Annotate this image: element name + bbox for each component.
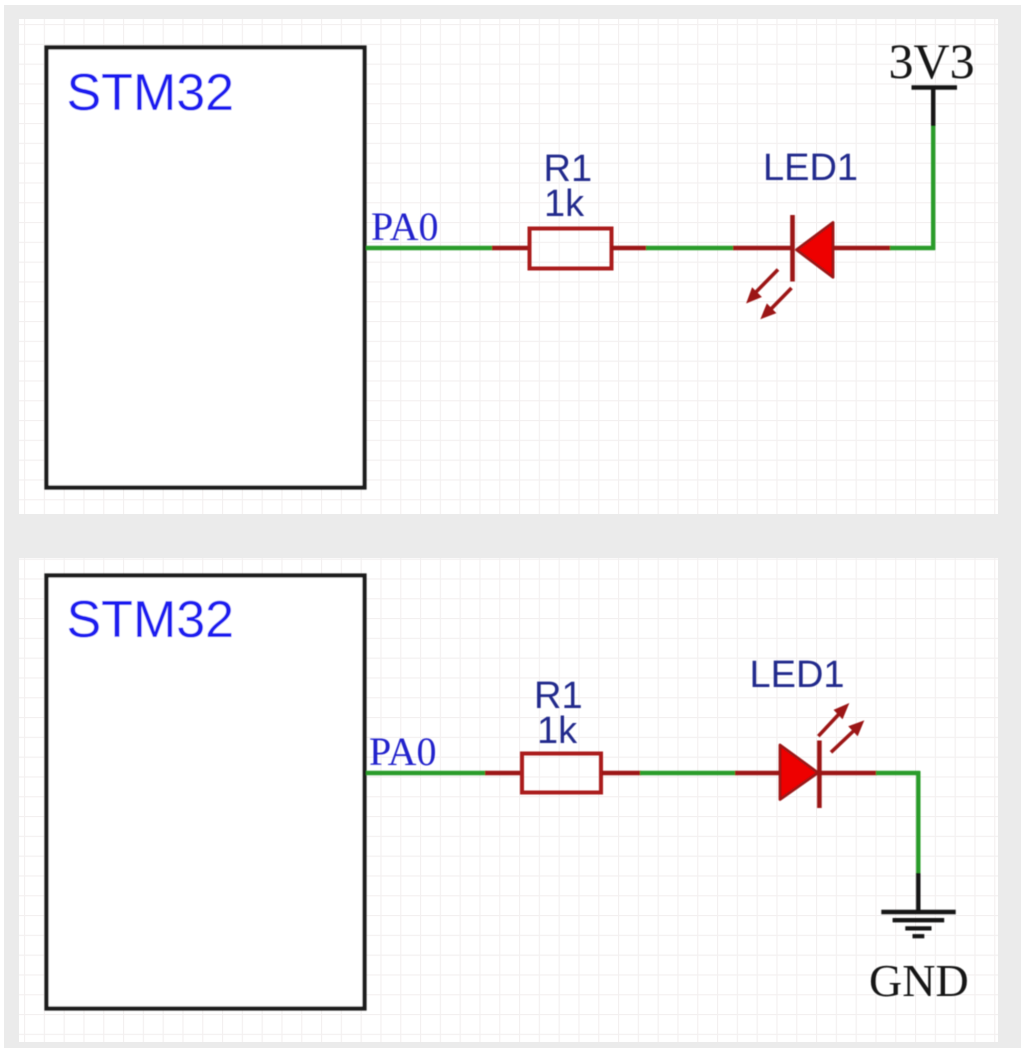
ground symbol bar 4 <box>913 934 925 938</box>
svg-text:PA0: PA0 <box>369 729 436 774</box>
pin stub left of R1 (dark red, top) <box>492 246 528 250</box>
wire 3V3 rail vertical (green, top) <box>931 125 935 250</box>
wire LED1 to GND horizontal (green, bottom) <box>876 771 920 775</box>
microcontroller STM32 box (top) <box>47 48 365 488</box>
wire PA0 to R1 (green, bottom) <box>366 771 486 775</box>
LED1 light emission arrow 2 (top) <box>761 288 791 318</box>
ground symbol bar 1 <box>881 910 955 915</box>
svg-text:1k: 1k <box>544 183 585 225</box>
svg-text:LED1: LED1 <box>750 654 845 696</box>
ground symbol bar 2 <box>893 918 945 922</box>
LED1 cathode bar (top) <box>790 215 795 282</box>
svg-text:GND: GND <box>869 955 969 1006</box>
svg-text:3V3: 3V3 <box>889 33 975 89</box>
LED1 triangle (top, pointing left) <box>797 223 834 278</box>
LED1 light emission arrow 1 (bottom) <box>818 704 848 736</box>
power pin stub 3V3 (black) <box>931 88 935 126</box>
wire PA0 to R1 (green, top) <box>366 246 493 250</box>
power symbol 3V3 bar <box>912 85 958 90</box>
LED1 cathode pin wire (dark red, top) <box>834 246 891 250</box>
LED1 anode pin wire (dark red, top) <box>733 246 793 250</box>
schematic sheet panel 1 (top) <box>19 19 998 514</box>
schematic sheet panel 2 (bottom) <box>19 558 998 1042</box>
microcontroller STM32 box (bottom) <box>47 576 365 1009</box>
ground symbol bar 3 <box>905 926 931 930</box>
ground pin stub (black) <box>916 873 920 911</box>
svg-text:1k: 1k <box>537 710 578 752</box>
svg-text:STM32: STM32 <box>67 591 235 649</box>
pin stub right of R1 (dark red, bottom) <box>602 771 641 775</box>
svg-text:LED1: LED1 <box>763 147 858 189</box>
wire GND vertical (green, bottom) <box>916 771 920 874</box>
pin stub right of R1 (dark red, top) <box>611 246 647 250</box>
LED1 light emission arrow 2 (bottom) <box>831 721 863 752</box>
pin stub left of R1 (dark red, bottom) <box>485 771 521 775</box>
resistor R1 body (bottom) <box>522 754 601 793</box>
svg-text:PA0: PA0 <box>371 204 438 249</box>
LED1 light emission arrow 1 (top) <box>747 270 778 303</box>
LED1 cathode pin wire (dark red, bottom) <box>819 771 877 775</box>
wire R1 to LED1 (green, top) <box>646 246 734 250</box>
wire LED1 to 3V3 rail horizontal (green, top) <box>890 246 935 250</box>
resistor R1 body (top) <box>530 229 612 269</box>
wire R1 to LED1 (green, bottom) <box>640 771 736 775</box>
LED1 triangle (bottom, pointing right) <box>780 745 818 800</box>
svg-text:STM32: STM32 <box>67 64 235 122</box>
LED1 anode pin wire (dark red, bottom) <box>735 771 781 775</box>
LED1 cathode bar (bottom) <box>817 741 822 809</box>
